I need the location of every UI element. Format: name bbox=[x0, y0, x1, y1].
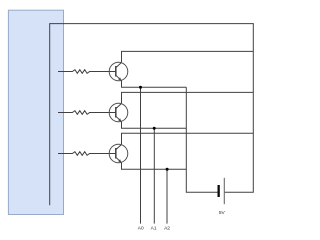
svg-text:A2: A2 bbox=[164, 226, 170, 232]
svg-text:A0: A0 bbox=[138, 226, 144, 232]
svg-text:A1: A1 bbox=[151, 226, 157, 232]
svg-text:5V: 5V bbox=[219, 210, 226, 216]
